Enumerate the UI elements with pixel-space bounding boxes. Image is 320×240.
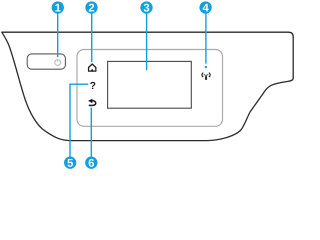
power icon bbox=[55, 59, 61, 66]
callout circle 2 bbox=[85, 1, 97, 13]
printer body outline bbox=[2, 32, 293, 140]
wireless icon bbox=[204, 74, 209, 80]
callout circle 3 bbox=[140, 1, 152, 13]
home icon bbox=[89, 64, 96, 71]
control panel bezel bbox=[77, 50, 223, 127]
help icon (?) bbox=[90, 82, 95, 89]
callout line 3 bbox=[146, 13, 148, 70]
power button bbox=[27, 54, 65, 69]
callout line 1 bbox=[57, 13, 59, 57]
callout line 6 bbox=[90, 108, 92, 158]
wireless light dot bbox=[205, 66, 207, 68]
callout circle 6 bbox=[85, 157, 97, 169]
display screen bbox=[108, 61, 192, 108]
callout circle 5 bbox=[64, 157, 76, 169]
callout line 4 bbox=[205, 13, 207, 64]
callout circle 1 bbox=[52, 1, 64, 13]
back icon bbox=[88, 99, 96, 106]
callout line 2 bbox=[91, 13, 93, 62]
callout line 5 bbox=[70, 84, 88, 157]
callout circle 4 bbox=[199, 1, 211, 13]
